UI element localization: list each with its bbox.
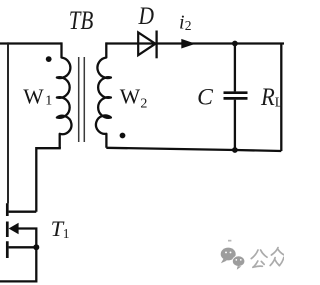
svg-text:D: D [138, 3, 154, 30]
svg-text:W: W [120, 84, 141, 108]
watermark text gong (公) [251, 250, 267, 267]
transistor T1 channel (dashed bar) [6, 203, 9, 258]
svg-text:1: 1 [45, 93, 52, 108]
svg-text:2: 2 [140, 97, 147, 112]
polarity dot W2 [120, 133, 126, 139]
watermark wechat icon bubble 1 [221, 248, 236, 264]
svg-text:TB: TB [69, 6, 94, 35]
svg-text:1: 1 [63, 226, 70, 241]
node: cap top junction [232, 41, 238, 47]
transformer core [79, 57, 85, 142]
watermark wechat icon bubble 2 eyes [235, 259, 237, 261]
capacitor C branch top lead [234, 44, 236, 92]
wire W1 bottom to drain [36, 148, 61, 212]
svg-text:W: W [23, 84, 44, 108]
wire top-left (input rail to W1) [0, 42, 62, 44]
capacitor C plates [224, 93, 248, 99]
winding W1 (primary) [57, 42, 72, 148]
svg-text:C: C [197, 85, 213, 111]
transistor T1 body arrow [9, 223, 19, 234]
polarity dot W1 [46, 56, 52, 62]
transistor T1 source lead [9, 246, 37, 248]
svg-text:R: R [260, 84, 275, 111]
wire top-right (W2 to output) [106, 42, 284, 44]
transistor T1 drain lead [9, 211, 37, 213]
wire source to bottom-left rail [0, 247, 36, 281]
transistor T1 body lead [18, 229, 36, 248]
capacitor C bottom lead [234, 100, 236, 150]
diode D [138, 31, 156, 59]
winding W2 (secondary) [96, 42, 111, 147]
wire bottom rail (W2 to load) [106, 148, 281, 151]
watermark text zhong (众, cut at right edge) [270, 248, 284, 266]
watermark small dash [228, 240, 231, 242]
load R_L branch wire [280, 44, 282, 152]
node: cap bottom junction [232, 147, 238, 153]
svg-text:L: L [275, 95, 283, 110]
current arrow i2 [181, 39, 195, 49]
svg-text:i: i [179, 11, 185, 33]
svg-text:2: 2 [185, 18, 192, 33]
watermark wechat icon bubble 1 eyes [225, 251, 227, 253]
wire left rail (gate lead, cut by image edge) [7, 42, 9, 203]
node: source junction dot [33, 244, 39, 250]
watermark wechat icon bubble 2 [232, 256, 244, 270]
